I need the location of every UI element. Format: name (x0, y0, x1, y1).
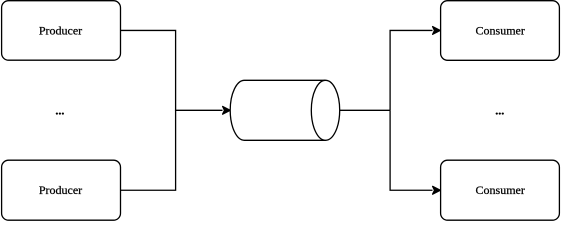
wire P1 to queue (121, 30, 223, 110)
svg-text:Producer: Producer (39, 23, 82, 37)
wire splitter to C2 (390, 110, 432, 190)
node dots left (more producers) (55, 104, 64, 118)
arrowhead into C2 (433, 186, 441, 194)
svg-text:Consumer: Consumer (476, 183, 525, 197)
node dots right (more consumers) (495, 104, 504, 118)
svg-text:Producer: Producer (39, 183, 82, 197)
arrowhead into C1 (433, 27, 441, 35)
consumer box C2 (441, 160, 560, 220)
producer box P1 (2, 1, 121, 61)
wire P2 to queue (121, 110, 176, 190)
queue cylinder Q (230, 80, 339, 140)
producer box P2 (2, 160, 121, 220)
arrowhead into queue (223, 106, 231, 114)
svg-text:...: ... (495, 104, 504, 118)
consumer box C1 (441, 1, 560, 61)
svg-text:Consumer: Consumer (476, 23, 525, 37)
wire splitter to C1 (390, 30, 432, 110)
svg-text:...: ... (55, 104, 64, 118)
wire queue to splitter (340, 109, 390, 111)
